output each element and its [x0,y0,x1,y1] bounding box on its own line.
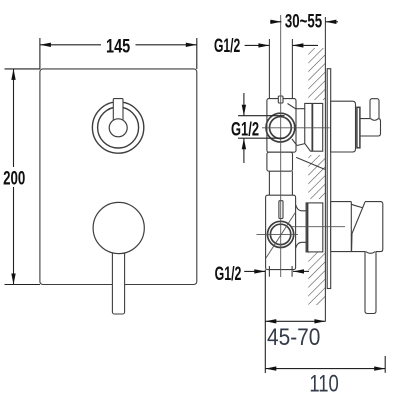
svg-text:45-70: 45-70 [267,324,320,351]
svg-text:110: 110 [309,370,338,397]
svg-text:30~55: 30~55 [285,10,322,32]
svg-text:G1/2: G1/2 [214,35,240,57]
svg-text:200: 200 [3,167,25,189]
svg-text:145: 145 [106,36,130,58]
svg-text:G1/2: G1/2 [215,263,242,285]
svg-text:G1/2: G1/2 [231,119,259,141]
